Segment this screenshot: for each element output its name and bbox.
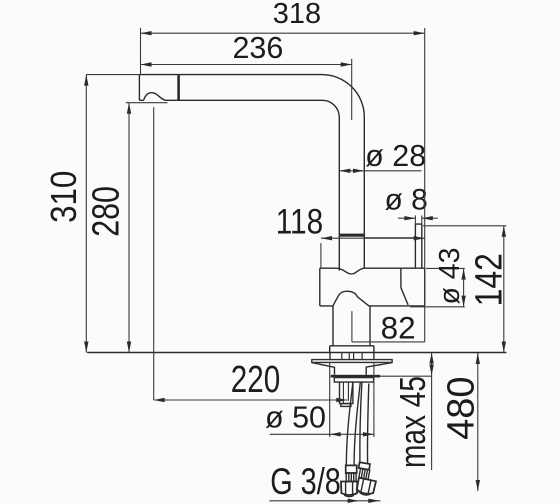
escutcheon plate <box>312 360 392 375</box>
spout bottom edge right segment + inner bend arc + left wall of vertical tube <box>165 100 339 270</box>
o43 extensions <box>410 268 465 306</box>
body left edge <box>319 268 321 306</box>
spout left edge <box>138 75 140 101</box>
G3/8 leader <box>269 499 380 503</box>
dim 310 <box>84 75 139 353</box>
body bottom edge with arch <box>320 291 425 306</box>
dim 220 <box>154 398 348 402</box>
flexible hose A (left) <box>341 382 360 496</box>
plate sides below deck <box>330 353 374 360</box>
spout bottom edge left segment <box>139 99 143 101</box>
142 top extension <box>423 225 506 227</box>
118 left extension <box>320 243 322 268</box>
handle cone right edge segment <box>400 268 402 288</box>
hose A hex nut <box>341 482 357 495</box>
dim max45 <box>429 353 433 470</box>
handle cone diagonal <box>401 288 408 305</box>
outlet centerline <box>153 107 155 400</box>
hose A corrugation <box>346 473 356 482</box>
faucet spout horizontal tube with bend <box>139 75 364 271</box>
svg-text:280: 280 <box>85 186 127 237</box>
base plate <box>330 346 374 360</box>
housing top edge <box>364 237 415 239</box>
svg-text:ø 50: ø 50 <box>265 401 326 435</box>
svg-text:236: 236 <box>232 31 283 65</box>
dim 118 <box>321 236 425 268</box>
svg-text:142: 142 <box>468 253 510 306</box>
310 top extension <box>86 74 139 76</box>
spout top edge + outer bend arc + right wall of vertical tube <box>139 75 364 268</box>
svg-text:318: 318 <box>273 0 321 30</box>
hose B collar <box>359 462 370 470</box>
hose B corrugation <box>359 468 370 479</box>
svg-text:310: 310 <box>44 171 85 223</box>
body top edge with concave dip <box>320 268 425 274</box>
dim o50 <box>270 363 375 437</box>
svg-text:82: 82 <box>381 309 416 345</box>
inner column line (82 left ext) <box>351 311 353 342</box>
spout head seam <box>177 75 180 100</box>
mixer body <box>320 268 425 306</box>
svg-text:480: 480 <box>441 376 483 439</box>
280 top extension <box>126 102 168 104</box>
escutcheon skirt diagonals <box>312 363 392 375</box>
flexible hose B (right) <box>356 382 376 497</box>
rod extension lines (dim ext for o8) <box>415 215 421 224</box>
aerator dome <box>144 93 166 101</box>
washer thin extension to max45 dim <box>380 375 432 377</box>
clamp ticks <box>342 353 362 359</box>
dim 318 <box>141 28 425 75</box>
dim 280 <box>126 103 168 353</box>
mounting nut block <box>334 378 373 383</box>
dim o43 <box>410 268 466 306</box>
long right extension (318/118/82) <box>424 28 426 342</box>
o50 extensions <box>330 363 374 437</box>
cone right vertical <box>424 268 426 306</box>
svg-text:max 45: max 45 <box>393 376 433 468</box>
dim o8 <box>398 216 438 220</box>
lower column <box>333 306 370 346</box>
mounting washer bar <box>331 375 380 378</box>
tube seam band <box>339 234 364 237</box>
dim o28 <box>339 169 421 173</box>
lever rod <box>415 224 421 268</box>
countertop deck line <box>87 352 506 354</box>
dim 236 <box>141 59 352 120</box>
dim 480 <box>476 353 480 491</box>
svg-text:ø 8: ø 8 <box>385 183 428 216</box>
svg-text:ø 28: ø 28 <box>365 139 426 173</box>
dim 142 <box>423 226 506 353</box>
236 right extension <box>351 59 353 120</box>
hose B hex nut <box>356 478 376 497</box>
svg-text:220: 220 <box>231 358 280 400</box>
dim 82 <box>352 28 425 342</box>
318 left extension <box>140 28 142 75</box>
threaded shank <box>340 382 353 406</box>
svg-text:118: 118 <box>276 202 323 241</box>
svg-text:ø 43: ø 43 <box>434 247 466 304</box>
hose A collar <box>346 465 357 473</box>
svg-text:G 3/8: G 3/8 <box>270 462 341 503</box>
lever handle housing <box>364 215 422 268</box>
